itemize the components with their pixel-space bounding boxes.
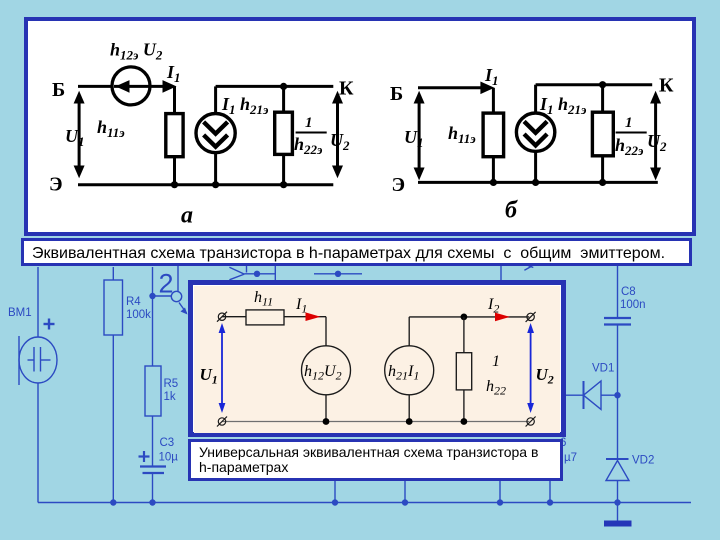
svg-text:Б: Б xyxy=(52,79,65,101)
wire to ground xyxy=(617,503,619,521)
wire source to node, arrow I1 (a) xyxy=(150,85,169,88)
resistor h11 xyxy=(246,310,284,325)
terminal bottom-left xyxy=(218,418,225,425)
label 1/h22 xyxy=(486,353,506,398)
svg-text:1: 1 xyxy=(305,115,313,131)
wire terminal to h11 xyxy=(222,316,246,318)
label U2 (a) xyxy=(330,130,350,153)
microphone BM1 xyxy=(19,337,57,383)
partially hidden labels C6 xyxy=(560,437,577,464)
svg-text:100n: 100n xyxy=(620,299,646,311)
svg-text:R4: R4 xyxy=(126,296,141,308)
wire source up to collector rail (b) xyxy=(534,85,537,114)
svg-text:10µ: 10µ xyxy=(159,452,179,464)
bottom rail xyxy=(222,421,529,423)
resistor 1/h22э (b) xyxy=(601,85,604,113)
svg-text:I1 h21э: I1 h21э xyxy=(221,94,269,117)
diode VD2 xyxy=(606,458,629,460)
strip check arrow mark xyxy=(524,266,532,270)
svg-text:h11э: h11э xyxy=(448,123,476,146)
svg-text:I1: I1 xyxy=(166,62,181,85)
svg-text:h22э: h22э xyxy=(294,134,323,157)
node К (b) xyxy=(659,75,674,97)
wire C8 top xyxy=(617,264,619,318)
svg-text:К: К xyxy=(659,75,674,97)
wire R4 top xyxy=(112,267,114,280)
terminal top-left xyxy=(218,313,225,320)
label I1 h21э (a) xyxy=(221,94,269,117)
strip vertical tick xyxy=(274,265,276,280)
label 1/h22э (b) xyxy=(615,115,644,158)
svg-text:µ7: µ7 xyxy=(564,452,577,464)
junction dot VD2/rail xyxy=(614,499,620,505)
wire h11э to bottom rail (b) xyxy=(492,157,495,183)
node Б (circuit a) xyxy=(52,79,65,101)
wire h11 to corner node xyxy=(284,316,326,318)
capacitor C8 xyxy=(604,318,631,325)
label I1 (a) xyxy=(166,62,181,85)
label I1 (b) xyxy=(484,65,499,88)
collector rail xyxy=(409,316,529,318)
svg-text:Э: Э xyxy=(49,174,63,196)
svg-text:BM1: BM1 xyxy=(8,307,32,319)
label I1 h21э (b) xyxy=(539,94,587,117)
transistor collector/emitter marks behind caption xyxy=(229,267,244,274)
wire h12U2 to bottom rail xyxy=(325,395,327,422)
svg-text:VD1: VD1 xyxy=(592,363,614,375)
junction dot strip right xyxy=(335,271,341,277)
svg-text:Б: Б xyxy=(390,83,403,105)
svg-text:I1: I1 xyxy=(295,296,307,316)
svg-text:U2: U2 xyxy=(330,130,350,153)
wire R5 to C3 xyxy=(152,416,154,467)
caption box 2 xyxy=(188,439,563,481)
wire Б to source (a) xyxy=(78,85,113,88)
voltage source h12эU2 (a) xyxy=(112,67,150,105)
label U1 (b) xyxy=(404,127,424,150)
wire BM1 bottom xyxy=(37,383,39,503)
node Б (circuit b) xyxy=(390,83,403,105)
voltage arrow U1 xyxy=(219,323,226,413)
top white panel with figure a and b xyxy=(24,17,696,236)
wire node down to h11э (a) xyxy=(173,86,176,113)
ground rail xyxy=(38,502,691,504)
svg-text:C3: C3 xyxy=(160,437,175,449)
wire h21I1 up to collector rail xyxy=(408,317,410,346)
wire corner down to h12U2 source xyxy=(325,317,327,346)
svg-text:h12э U2: h12э U2 xyxy=(110,40,163,63)
junction dot VD1 node xyxy=(614,392,620,398)
current source I1h21э (a) xyxy=(196,114,235,153)
wire source to bottom rail (a) xyxy=(214,153,217,185)
wire node to VD2 xyxy=(617,395,619,459)
label h12э U2 xyxy=(110,40,163,63)
label U2 (b) xyxy=(647,131,667,154)
junction dot C3/rail xyxy=(149,499,155,505)
collector rail (a) xyxy=(216,85,334,88)
bottom rail Э (a) xyxy=(78,183,333,186)
label b xyxy=(505,198,518,224)
wire source up to collector rail (a) xyxy=(214,86,217,113)
junction dot strip left xyxy=(254,271,260,277)
svg-text:R5: R5 xyxy=(164,378,179,390)
current arrow I2 xyxy=(495,313,510,322)
voltage arrow U2 (a) xyxy=(336,97,339,172)
svg-text:h11э: h11э xyxy=(97,117,125,140)
label h11 xyxy=(254,289,273,309)
strip vertical wire at 501 xyxy=(500,265,502,280)
label U1 (a) xyxy=(65,126,85,149)
svg-text:б: б xyxy=(505,198,518,224)
svg-text:Э: Э xyxy=(392,174,406,196)
label U1 xyxy=(200,365,218,387)
wire C3 bottom xyxy=(152,473,154,503)
collector rail (b) xyxy=(536,83,653,86)
junction dot top of 1/h22э (b) xyxy=(599,81,606,88)
svg-text:C8: C8 xyxy=(621,286,636,298)
label h11э (a) xyxy=(97,117,125,140)
svg-text:U1: U1 xyxy=(65,126,85,149)
label 1/h22э (a) xyxy=(294,115,323,157)
capacitor C3 xyxy=(140,467,166,474)
strip wire right xyxy=(314,273,362,275)
resistor h11э (a) xyxy=(166,114,183,157)
node Э (a) xyxy=(49,174,63,196)
label U2 xyxy=(536,365,554,387)
resistor 1/h22э (a) xyxy=(282,86,285,112)
resistor R5 xyxy=(145,366,161,416)
plus mark of BM1 xyxy=(44,319,55,330)
middle panel with universal equivalent circuit xyxy=(188,280,566,437)
label h11э (b) xyxy=(448,123,476,146)
junction dot R4/rail xyxy=(110,499,116,505)
caption bar 1 xyxy=(21,238,692,266)
svg-text:100k: 100k xyxy=(126,309,151,321)
wire h11э to bottom rail (a) xyxy=(173,157,176,185)
svg-text:h12U2: h12U2 xyxy=(304,363,342,383)
svg-text:VD2: VD2 xyxy=(632,455,654,467)
svg-text:h11: h11 xyxy=(254,289,273,309)
junction dots bottom rail (a) xyxy=(171,181,178,188)
wire R4 bottom xyxy=(112,335,114,503)
terminal top-right xyxy=(527,313,534,320)
junction dots bottom rail (b) xyxy=(490,179,497,186)
svg-text:К: К xyxy=(339,78,354,100)
resistor h11э (b) xyxy=(483,113,504,157)
svg-text:1: 1 xyxy=(492,353,500,370)
source h21I1 xyxy=(385,346,434,395)
junction dot top of h22 xyxy=(461,314,468,321)
wire BM1 top xyxy=(37,267,39,337)
wire Б with arrow I1 (b) xyxy=(418,86,486,89)
current arrow I1 xyxy=(306,312,321,321)
voltage arrow U1 (a) xyxy=(78,97,81,172)
diode VD1 xyxy=(566,394,584,396)
wire above node marker xyxy=(177,266,179,292)
resistor R4 xyxy=(104,280,123,335)
svg-text:h21I1: h21I1 xyxy=(388,363,419,383)
svg-text:h22: h22 xyxy=(486,378,506,398)
junction dot R5 top xyxy=(149,293,155,299)
node marker circle xyxy=(171,291,181,301)
svg-text:U1: U1 xyxy=(200,365,218,387)
transistor emitter arrow xyxy=(179,303,187,314)
voltage arrow U2 (b) xyxy=(654,97,657,174)
wire C8 to VD1 node xyxy=(617,325,619,396)
label a xyxy=(181,203,193,229)
svg-text:I2: I2 xyxy=(487,296,499,316)
svg-text:2: 2 xyxy=(159,269,174,299)
ground symbol xyxy=(604,521,632,527)
wire node down to h11э (b) xyxy=(492,88,495,113)
terminal bottom-right xyxy=(527,418,534,425)
wire R5 top xyxy=(152,267,154,366)
junction dot top of 1/h22э (a) xyxy=(280,83,287,90)
svg-text:1k: 1k xyxy=(164,391,176,403)
strip wire left xyxy=(244,273,275,275)
junction dots bottom rail xyxy=(323,418,330,425)
stub wires below caption 2 xyxy=(334,481,336,503)
svg-text:I1 h21э: I1 h21э xyxy=(539,94,587,117)
bottom rail Э (b) xyxy=(418,181,658,184)
wire h21I1 down to bottom rail xyxy=(408,395,410,422)
wire to node marker xyxy=(153,295,172,297)
resistor h22 xyxy=(463,317,465,353)
svg-text:h22э: h22э xyxy=(615,135,644,158)
wire source to bottom rail (b) xyxy=(534,151,537,182)
label BM1 xyxy=(8,307,32,319)
node Э (b) xyxy=(392,174,406,196)
source h12U2 xyxy=(302,346,351,395)
plus mark of C3 xyxy=(139,451,150,462)
voltage arrow U2 xyxy=(527,323,534,413)
node К (a) xyxy=(339,78,354,100)
current source I1h21э (b) xyxy=(516,113,554,151)
svg-text:U2: U2 xyxy=(536,365,554,387)
svg-text:а: а xyxy=(181,203,193,229)
svg-text:1: 1 xyxy=(625,115,633,131)
voltage arrow U1 (b) xyxy=(418,97,421,174)
big label 2 xyxy=(159,269,174,299)
svg-text:I1: I1 xyxy=(484,65,499,88)
